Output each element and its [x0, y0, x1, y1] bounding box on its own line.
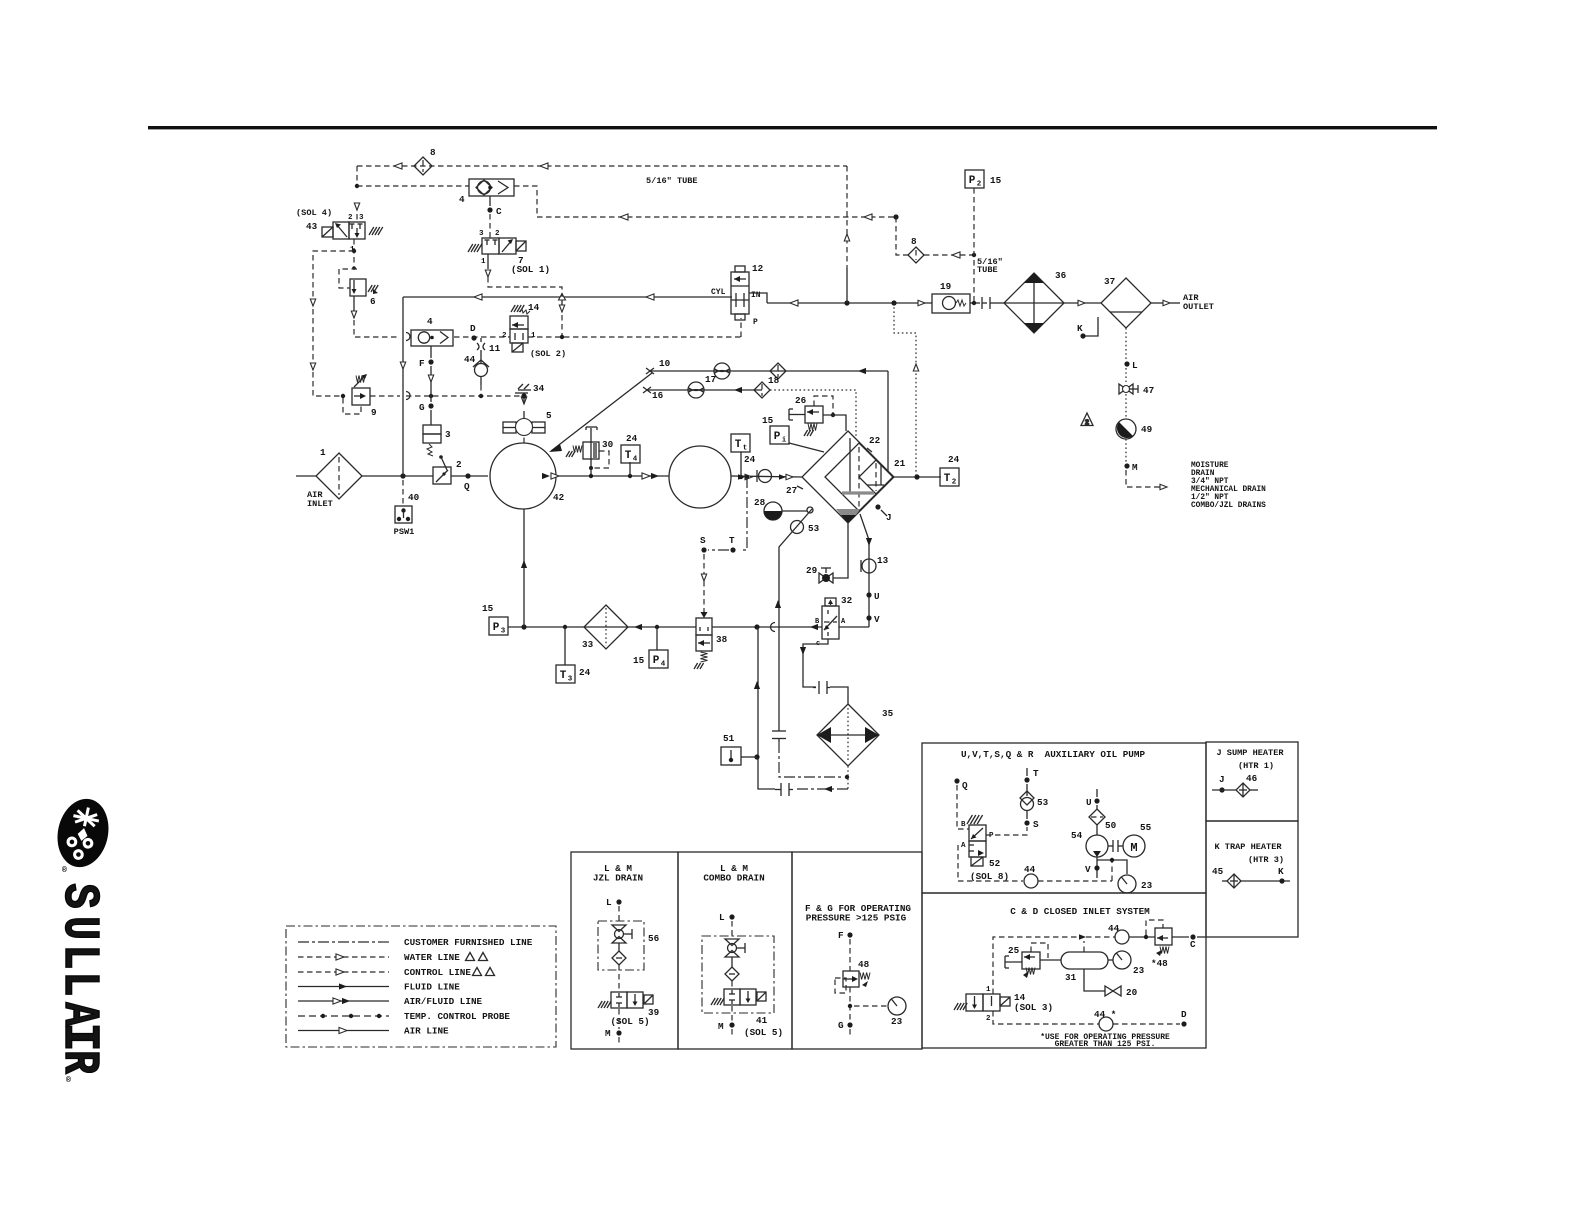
svg-text:17: 17: [705, 374, 716, 385]
regulator 6: [350, 279, 366, 296]
thermal valve 26: [789, 406, 823, 423]
probe line: [894, 303, 916, 477]
box combo drain outline: [678, 852, 792, 1049]
flow arrow up: [775, 600, 781, 608]
pressure tag P3: [489, 617, 508, 636]
svg-text:F: F: [419, 358, 425, 369]
open arrow: [310, 299, 315, 306]
wire D down: [480, 338, 482, 342]
svg-text:15: 15: [990, 175, 1002, 186]
wire 51 to riser: [741, 756, 757, 758]
node: [589, 466, 593, 470]
solenoid coil 52: [971, 857, 983, 866]
svg-text:49: 49: [1141, 424, 1153, 435]
svg-text:T: T: [729, 535, 735, 546]
svg-text:47: 47: [1143, 385, 1154, 396]
separator element 22: [825, 443, 893, 511]
wire 48 to C: [1172, 936, 1189, 938]
svg-text:INLET: INLET: [307, 499, 333, 509]
check valve combo: [725, 967, 739, 981]
wire: [1086, 936, 1115, 938]
node 51: [754, 754, 759, 759]
svg-text:2: 2: [986, 1015, 991, 1023]
wire 6 down: [353, 296, 355, 311]
svg-text:23: 23: [1141, 880, 1153, 891]
wire sump to V riser: [860, 514, 869, 627]
wire 44 down: [480, 376, 482, 385]
wire T4 drop: [629, 462, 631, 476]
svg-text:1: 1: [986, 986, 991, 994]
node U main: [866, 592, 871, 597]
thermal bypass valve 32: [822, 598, 839, 639]
node T2 probe: [914, 474, 919, 479]
check valve 44 aux: [1024, 874, 1038, 888]
wire: [1125, 394, 1127, 419]
svg-text:J SUMP HEATER: J SUMP HEATER: [1216, 748, 1284, 758]
flow arrow: [866, 538, 872, 546]
node M main: [1124, 463, 1129, 468]
spring 14: [519, 309, 530, 314]
svg-text:22: 22: [869, 435, 881, 446]
pilot valve 12: [731, 266, 749, 320]
check valve 13: [861, 559, 876, 573]
node p2 join: [972, 301, 976, 305]
wire 8 to P2 riser: [924, 254, 974, 256]
hatch arrow 6: [373, 289, 378, 294]
node F: [428, 359, 433, 364]
wire left drop to 9: [313, 251, 354, 396]
thermal valve 38: [696, 611, 712, 651]
svg-text:S: S: [700, 535, 706, 546]
gauge 23 ci: [1113, 951, 1131, 969]
svg-text:CUSTOMER FURNISHED LINE: CUSTOMER FURNISHED LINE: [404, 937, 533, 948]
wire T1 drop: [740, 452, 742, 477]
linkage 3 to valve 2: [439, 455, 447, 470]
svg-text:P: P: [493, 622, 500, 634]
check diamond 18b: [754, 382, 770, 398]
svg-text:40: 40: [408, 492, 420, 503]
node J main: [875, 504, 880, 509]
svg-text:10: 10: [659, 358, 671, 369]
gauge 23 aux: [1118, 875, 1136, 893]
node T aux: [1024, 777, 1029, 782]
svg-text:6: 6: [370, 296, 376, 307]
node S probe: [701, 547, 706, 552]
wire T probe: [740, 477, 747, 550]
flow arrow: [858, 368, 866, 374]
wire Pi to sep: [789, 443, 824, 452]
manual valve jzl: [612, 925, 632, 943]
wire K tap: [1083, 317, 1098, 336]
svg-text:31: 31: [1065, 972, 1077, 983]
svg-text:GREATER THAN 125 PSI.: GREATER THAN 125 PSI.: [1055, 1040, 1156, 1049]
svg-text:4: 4: [633, 456, 638, 464]
spring arrow 9: [354, 374, 367, 387]
svg-text:15: 15: [482, 603, 494, 614]
legend fluid line sample: [298, 986, 389, 988]
svg-text:U: U: [50, 916, 108, 940]
control riser x847 lower: [846, 268, 848, 303]
shuttle valve 4 top: [469, 179, 514, 196]
oil level line: [842, 491, 874, 494]
compressor 42: [490, 443, 556, 509]
svg-text:(SOL 8): (SOL 8): [970, 871, 1009, 882]
svg-text:56: 56: [648, 933, 660, 944]
node L jzl: [616, 899, 621, 904]
unloader valve 5: [503, 419, 545, 436]
node tee: [1110, 858, 1114, 862]
wire comp42 down: [523, 509, 525, 627]
svg-text:T: T: [560, 670, 567, 682]
svg-text:FLUID LINE: FLUID LINE: [404, 982, 460, 993]
wire: [896, 217, 908, 255]
temp tag T3: [556, 665, 575, 684]
spring 48 fg: [860, 973, 870, 980]
hatch combo sol5: [711, 998, 724, 1005]
svg-text:T: T: [625, 450, 632, 462]
wire check44 to 48: [1129, 936, 1155, 938]
wire 38 to 32: [712, 626, 822, 628]
node L combo: [729, 914, 734, 919]
svg-text:2: 2: [502, 332, 507, 340]
oil line 10: [650, 370, 888, 372]
check valve 53 aux: [1020, 791, 1034, 811]
wire comp42 to comp2: [556, 475, 669, 477]
drain valve 20: [1105, 986, 1121, 996]
wire: [731, 1029, 733, 1038]
heater element 45: [1227, 874, 1241, 888]
wire 50 to pump: [1096, 825, 1098, 835]
legend air line sample: [298, 1030, 389, 1032]
wire F to 48: [849, 939, 851, 971]
flow arrow: [800, 647, 806, 655]
svg-text:2: 2: [1085, 420, 1089, 428]
wire S to 38: [703, 554, 705, 611]
node: [560, 335, 564, 339]
temp tag T1: [731, 434, 750, 453]
svg-text:MOISTURE: MOISTURE: [1191, 462, 1229, 470]
node comp drop: [521, 624, 526, 629]
flow arrow up: [521, 560, 527, 568]
wire shuttle to sol2: [454, 336, 510, 338]
spring 26: [808, 424, 817, 431]
wire 28 to sump: [782, 510, 807, 512]
wire 5 up: [523, 411, 525, 418]
solenoid valve 7 (SOL 1): [482, 238, 526, 254]
svg-text:P: P: [653, 655, 660, 667]
svg-text:13: 13: [877, 555, 889, 566]
wire: [356, 166, 358, 186]
svg-text:3: 3: [445, 429, 451, 440]
check valve 8 top: [414, 157, 432, 175]
node U aux: [1094, 798, 1099, 803]
svg-text:TEMP. CONTROL PROBE: TEMP. CONTROL PROBE: [404, 1011, 510, 1022]
wire sep to T2: [893, 476, 941, 478]
svg-text:L: L: [606, 897, 612, 908]
wire jzl to sol5: [618, 965, 620, 991]
node J hs: [1219, 787, 1224, 792]
wire to PSW1: [402, 480, 404, 506]
svg-text:42: 42: [553, 492, 565, 503]
svg-text:35: 35: [882, 708, 894, 719]
node: [341, 394, 345, 398]
svg-text:M: M: [718, 1021, 724, 1032]
box J sump heater outline: [1206, 742, 1298, 821]
svg-text:2: 2: [952, 479, 957, 487]
wire M drain out: [1126, 470, 1160, 487]
wire sol5 to M: [618, 1009, 620, 1029]
svg-text:(HTR 1): (HTR 1): [1238, 761, 1274, 771]
flow arrow: [824, 786, 832, 792]
solenoid valve 14 (SOL 3): [966, 994, 1010, 1011]
control riser x847: [846, 166, 848, 268]
open arrow probe: [913, 364, 918, 371]
temp tag T4: [621, 445, 640, 464]
sump bottom vertex fill: [841, 515, 856, 523]
check valve 8 right: [908, 247, 924, 263]
wire IN to main: [749, 293, 767, 303]
legend control line warn triangles: [473, 968, 495, 976]
wire 16 to sep: [770, 390, 856, 437]
wire: [1026, 784, 1028, 796]
svg-text:15: 15: [633, 655, 645, 666]
wire: [480, 350, 482, 363]
svg-text:C: C: [1190, 939, 1196, 950]
wire shuttle to F: [430, 346, 432, 358]
node: [831, 413, 835, 417]
exhaust hatch 43: [369, 227, 383, 235]
pilot dashed 30: [594, 451, 609, 468]
svg-text:U: U: [1086, 797, 1092, 808]
wire P drop: [740, 318, 742, 337]
flow arrow: [634, 624, 642, 630]
svg-text:9: 9: [371, 407, 377, 418]
node M jzl: [616, 1030, 621, 1035]
hatch sol1: [468, 244, 482, 252]
regulator *48: [1155, 928, 1172, 945]
svg-text:3: 3: [479, 230, 484, 238]
node G: [847, 1022, 852, 1027]
pilot dashed 6: [339, 269, 357, 288]
svg-text:50: 50: [1105, 820, 1117, 831]
wire F to G: [430, 366, 432, 402]
heater element 46: [1236, 783, 1250, 797]
svg-text:M: M: [1132, 462, 1138, 473]
wire: [1170, 302, 1180, 304]
wire sol4 down: [353, 239, 355, 265]
node Q main: [465, 473, 470, 478]
open arrow: [559, 305, 564, 312]
svg-text:TUBE: TUBE: [977, 265, 998, 275]
wire valve52 P to S: [986, 827, 1027, 835]
svg-text:2: 2: [348, 214, 353, 222]
hatch jzl sol5: [598, 1001, 611, 1008]
svg-text:DRAIN: DRAIN: [1191, 470, 1215, 478]
solenoid valve 43 (SOL 4): [322, 222, 365, 239]
min pressure check valve 19: [932, 294, 970, 313]
svg-text:CONTROL LINE: CONTROL LINE: [404, 967, 471, 978]
wire Q to valve52 B: [957, 785, 969, 829]
pressure tag Pi: [770, 426, 789, 445]
wire: [1125, 368, 1127, 382]
wire flex to hx: [830, 687, 848, 704]
svg-text:12: 12: [752, 263, 764, 274]
pressure tag P4: [649, 650, 668, 669]
manual valve combo: [725, 939, 745, 957]
wire comp2 to separator: [731, 476, 802, 477]
svg-text:F: F: [838, 930, 844, 941]
flow arrow up: [754, 681, 760, 689]
drain valve 47: [1119, 384, 1138, 394]
jzl dashdot enclosure: [598, 921, 644, 970]
node G: [428, 403, 433, 408]
wire: [970, 302, 980, 304]
svg-text:C & D CLOSED INLET SYSTEM: C & D CLOSED INLET SYSTEM: [1010, 906, 1150, 917]
svg-text:52: 52: [989, 858, 1001, 869]
svg-text:28: 28: [754, 497, 766, 508]
wire sol3-1 up and right: [993, 937, 1079, 994]
node probe join: [891, 300, 896, 305]
node ST tee: [745, 475, 749, 479]
wire cust loop: [779, 742, 843, 777]
pilot dashed 9: [343, 398, 361, 414]
solenoid valve 41 (SOL 5): [724, 989, 766, 1005]
Sullair wordmark: [50, 883, 108, 1074]
wire L to jzl valve: [618, 906, 620, 921]
blowdown valve 30: [583, 427, 599, 468]
svg-text:*48: *48: [1151, 958, 1168, 969]
filter 50: [1089, 809, 1105, 825]
node P4 tee: [655, 625, 659, 629]
wire inlet to valve2: [362, 475, 433, 477]
open arrow up riser: [844, 234, 849, 241]
wire 9 right: [370, 395, 400, 397]
svg-text:37: 37: [1104, 276, 1115, 287]
flow arrow: [810, 624, 818, 630]
spring 25: [1026, 968, 1035, 975]
jump: [771, 623, 776, 632]
wire 26 to sep: [823, 415, 846, 431]
separator tick 22: [867, 448, 872, 452]
aftercooler 36: [1004, 273, 1064, 333]
wire outlet line: [767, 302, 932, 304]
svg-text:44: 44: [1108, 923, 1120, 934]
svg-text:3: 3: [359, 214, 364, 222]
union 16: [643, 387, 651, 393]
control line top: [357, 165, 847, 167]
wire: [731, 957, 733, 967]
wire: [849, 1029, 851, 1036]
wire from top to sol4: [356, 205, 358, 222]
svg-text:14: 14: [528, 302, 540, 313]
pilot regulator 25: [1005, 952, 1040, 969]
node 34: [521, 393, 526, 398]
svg-text:OUTLET: OUTLET: [1183, 302, 1214, 312]
node fg gauge tee: [848, 1004, 852, 1008]
svg-text:t: t: [743, 445, 748, 453]
check diamond 18a: [770, 363, 786, 379]
node D: [471, 335, 476, 340]
wire 10 to comp: [551, 373, 652, 451]
node: [352, 249, 356, 253]
svg-text:8: 8: [430, 147, 436, 158]
orifice 11: [477, 343, 485, 350]
open arrow down: [521, 397, 526, 404]
open arrow: [428, 375, 433, 382]
node L main: [1124, 361, 1129, 366]
wire P2 riser: [973, 188, 975, 303]
pressure tag P2: [965, 170, 984, 189]
wire U to filter 50: [1096, 805, 1098, 809]
regulator 9: [352, 388, 370, 405]
open arrow: [485, 270, 490, 277]
svg-text:24: 24: [948, 454, 960, 465]
box F&G outline: [792, 852, 922, 1049]
wire: [995, 302, 1004, 304]
wire valve52 A to check44: [958, 845, 1023, 881]
svg-text:C: C: [496, 206, 502, 217]
ball check 43y: [757, 470, 772, 483]
pressure switch 3: [423, 425, 441, 456]
node C: [1190, 934, 1195, 939]
svg-text:JZL DRAIN: JZL DRAIN: [593, 873, 643, 884]
flex joint 2: [813, 681, 830, 694]
regulator 48 fg: [843, 971, 859, 987]
svg-text:45: 45: [1212, 866, 1224, 877]
node: [430, 336, 434, 340]
wire K heater: [1222, 880, 1227, 882]
svg-text:Q: Q: [962, 780, 968, 791]
svg-text:i: i: [782, 437, 787, 445]
wire T3 drop: [564, 627, 566, 665]
hatch 30: [566, 451, 575, 457]
svg-text:K TRAP HEATER: K TRAP HEATER: [1214, 842, 1282, 852]
svg-text:AIR/FLUID LINE: AIR/FLUID LINE: [404, 996, 483, 1007]
svg-text:L: L: [719, 912, 725, 923]
wire J heater: [1212, 789, 1236, 791]
svg-text:39: 39: [648, 1007, 660, 1018]
svg-text:26: 26: [795, 395, 807, 406]
oil filter 33: [584, 605, 628, 649]
node T3 tee: [563, 625, 567, 629]
svg-text:1: 1: [320, 447, 326, 458]
node T1 tee: [739, 475, 743, 479]
svg-text:S: S: [1033, 819, 1039, 830]
wire: [731, 981, 733, 988]
svg-text:S: S: [51, 883, 108, 908]
svg-text:54: 54: [1071, 830, 1083, 841]
vent 34: [515, 384, 531, 393]
svg-text:3: 3: [501, 628, 506, 636]
wire oil return drop: [887, 371, 889, 471]
wire tank to valve20: [1084, 969, 1105, 991]
sump oil fill: [836, 509, 860, 515]
wire CYL line: [403, 296, 732, 298]
svg-text:A: A: [961, 842, 966, 850]
sight glass 17: [714, 363, 730, 379]
flow arrow: [1079, 934, 1086, 939]
separator element 21: [859, 460, 893, 494]
svg-text:29: 29: [806, 565, 818, 576]
wire 9 to vent 34: [406, 395, 520, 397]
node T4 tee: [628, 474, 632, 478]
solenoid valve 52 (SOL 8): [969, 825, 986, 857]
wire: [561, 300, 563, 306]
separator 27: [802, 431, 894, 523]
wire pump tee to gauge 23: [1097, 860, 1127, 874]
wire 37 out: [1151, 302, 1163, 304]
svg-text:P: P: [969, 175, 976, 187]
